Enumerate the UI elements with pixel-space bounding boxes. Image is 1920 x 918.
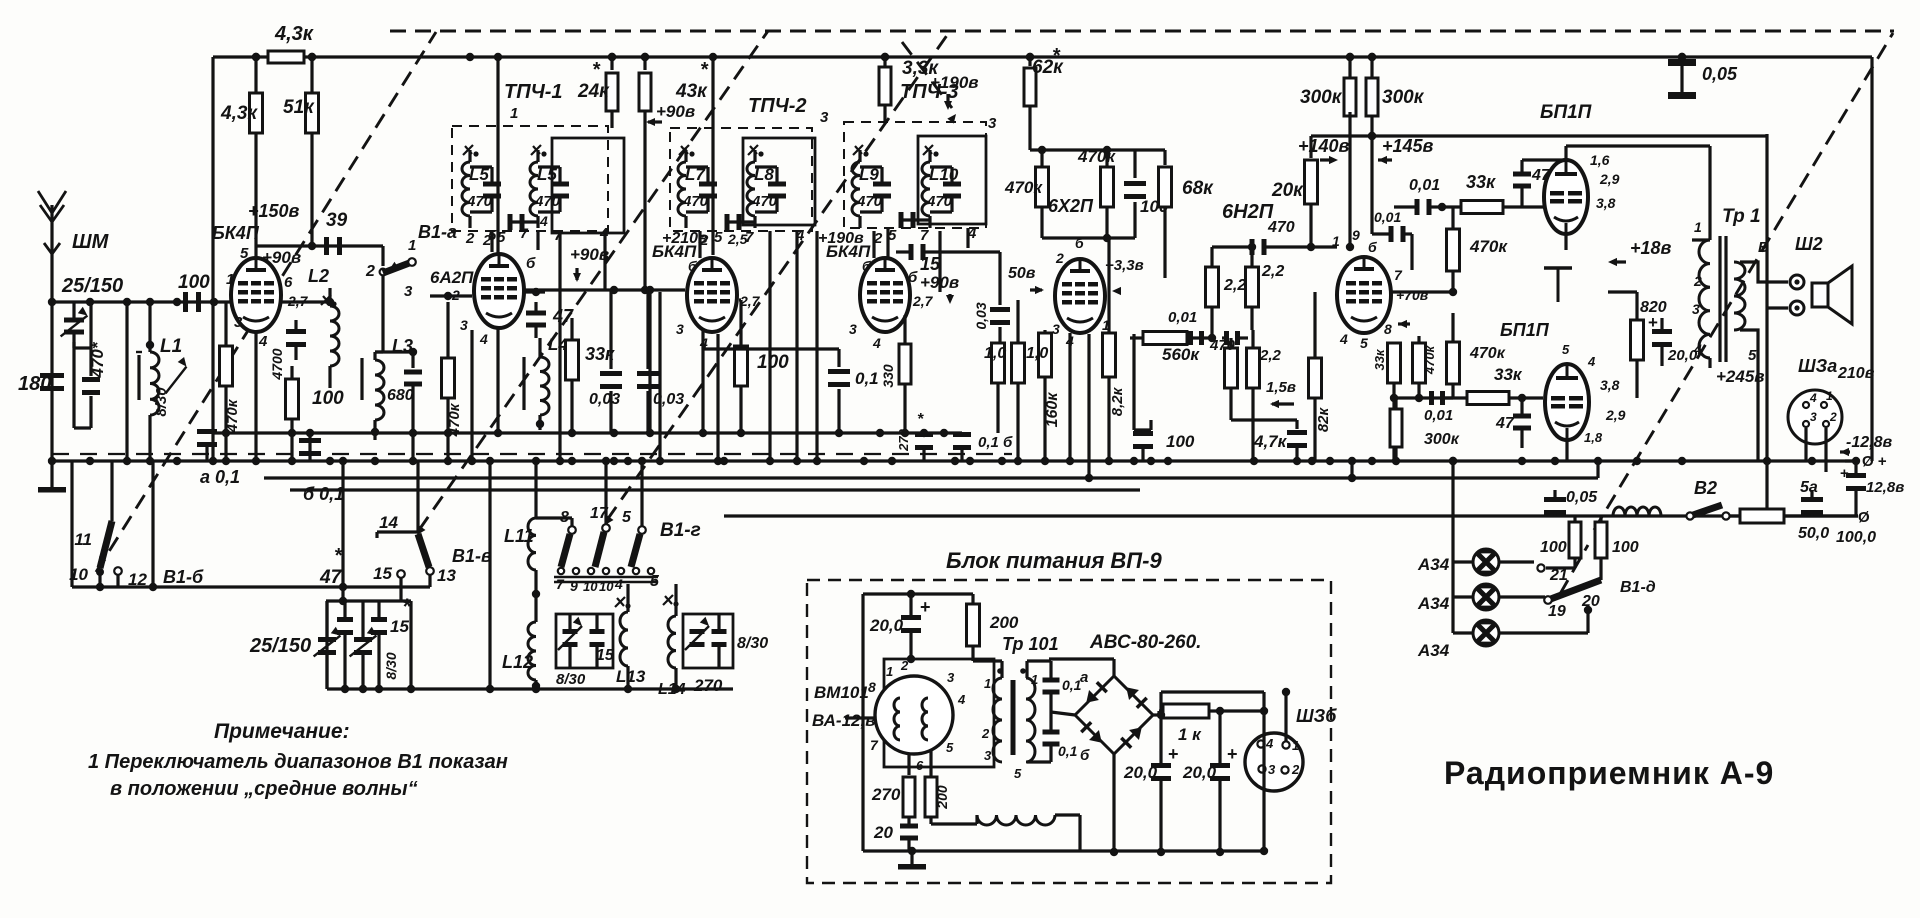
svg-text:470к: 470к (1469, 237, 1508, 256)
label БП1П top (1540, 102, 1592, 123)
svg-text:8/30: 8/30 (383, 652, 399, 679)
xmark L14 (663, 595, 679, 607)
svg-text:ШМ: ШМ (72, 231, 110, 253)
pin labels ТПЧ-2 (699, 227, 805, 249)
transformer Тр1 core (1720, 236, 1726, 362)
svg-text:8: 8 (1384, 321, 1392, 337)
label 100,0 (1836, 509, 1876, 546)
resistor 470к osc (442, 302, 464, 461)
label ШЗа (1798, 356, 1875, 382)
wire psu right (0, 0, 1, 1)
label Ш2 (1795, 234, 1823, 254)
coil L8 (747, 145, 786, 228)
svg-text:4,7к: 4,7к (1253, 432, 1288, 451)
label БК4П V3 (826, 242, 871, 274)
resistor 470к ph (1447, 207, 1509, 292)
svg-text:В1-д: В1-д (1620, 579, 1656, 596)
resistor 820 (1631, 292, 1667, 398)
pins ВМ101 (868, 658, 966, 773)
svg-text:3: 3 (1052, 321, 1060, 337)
svg-text:5: 5 (714, 229, 723, 246)
svg-text:47: 47 (319, 567, 343, 588)
pins 6Н2П (1332, 227, 1403, 351)
wire top supply bus (213, 55, 1872, 58)
tuning gang left (326, 597, 411, 689)
svg-text:4700: 4700 (269, 348, 285, 380)
label Блок питания (946, 548, 1162, 573)
svg-text:ВА-12,в: ВА-12,в (812, 711, 875, 730)
svg-text:4: 4 (1809, 391, 1817, 405)
transformer Тр101 core (997, 668, 1026, 755)
resistor 33к ph (1438, 172, 1545, 214)
svg-text:12,8в: 12,8в (1866, 479, 1904, 496)
pins V7 (1562, 342, 1626, 445)
svg-text:+145в: +145в (1382, 136, 1434, 156)
svg-text:100: 100 (757, 352, 789, 373)
svg-text:1: 1 (1826, 389, 1833, 403)
capacitor 12,8 el (1840, 461, 1904, 516)
svg-text:б 0,1: б 0,1 (303, 484, 344, 504)
trimmer mark L2 (321, 295, 337, 307)
svg-text:3: 3 (1692, 301, 1700, 317)
wire osc row (524, 286, 685, 294)
svg-text:2: 2 (1055, 250, 1064, 266)
svg-text:2: 2 (1829, 410, 1837, 424)
note line 1 (88, 751, 508, 773)
capacitor 470* (74, 302, 107, 428)
capacitor 4,7к (1253, 420, 1307, 461)
wire 6н2п plate a (1346, 112, 1354, 251)
svg-text:100: 100 (312, 388, 344, 409)
pins 6А2П bottom (451, 287, 488, 347)
lamp А34 3 (1453, 620, 1588, 646)
capacitor 100 det2 (1133, 334, 1195, 461)
resistor 300к b (1366, 53, 1425, 136)
capacitor 680 (404, 348, 422, 461)
capacitor 180 (18, 373, 64, 395)
capacitor 5а (1798, 479, 1829, 542)
resistor 200 psu2 (925, 750, 977, 824)
wire B1a down (381, 276, 384, 352)
svg-text:2,9: 2,9 (1599, 171, 1620, 187)
coil Тр1 primary (1699, 240, 1710, 358)
svg-text:5: 5 (240, 245, 249, 262)
bridge АВС-80-260 (1049, 659, 1153, 856)
svg-text:+: + (1840, 465, 1849, 482)
svg-text:9: 9 (1352, 227, 1360, 243)
svg-text:*: * (592, 59, 601, 81)
svg-text:L11: L11 (504, 526, 534, 546)
capacitor 470 series (1212, 239, 1337, 255)
capacitor 270* (896, 411, 933, 461)
svg-text:БП1П: БП1П (1540, 102, 1592, 123)
wire det top (1042, 234, 1135, 242)
label +145в (1378, 136, 1434, 164)
dashed diagonal D2 (417, 31, 768, 535)
svg-text:14: 14 (379, 513, 398, 532)
terminal b (1790, 301, 1804, 315)
svg-text:20: 20 (873, 823, 893, 842)
wire v6 plate к Тр1 (1639, 144, 1710, 147)
svg-text:21: 21 (1549, 567, 1568, 584)
resistor 2,2 c (1247, 330, 1282, 461)
capacitor 0,01 560 (1188, 331, 1204, 345)
wire box верх (1765, 134, 1768, 516)
svg-text:6А2П: 6А2П (430, 268, 474, 287)
coil Тр101 prim (993, 678, 1002, 762)
svg-text:200: 200 (934, 785, 950, 810)
svg-text:2,9: 2,9 (1605, 407, 1626, 423)
label 47* (319, 545, 343, 588)
capacitor 20,0 psu (869, 590, 931, 659)
switch В1-г bank (560, 505, 701, 567)
label 470 cap (1267, 219, 1295, 236)
svg-text:3: 3 (460, 317, 468, 333)
svg-text:1: 1 (984, 676, 991, 691)
svg-text:5: 5 (1360, 335, 1368, 351)
label Тр 1 (1722, 206, 1761, 227)
svg-text:4,3к: 4,3к (274, 23, 314, 45)
shield box L5b (552, 138, 624, 233)
fuse (1730, 509, 1858, 523)
svg-text:2,7: 2,7 (912, 293, 934, 309)
capacitor 15 (896, 244, 1000, 274)
capacitor link ТПЧ-2 (725, 214, 756, 230)
capacitor 0,03 a (589, 290, 622, 433)
svg-text:680: 680 (387, 387, 414, 404)
label ВМ101 (812, 683, 875, 730)
svg-text:3,8: 3,8 (1600, 377, 1620, 393)
label А34 2 (1417, 594, 1450, 613)
svg-text:100,0: 100,0 (1836, 529, 1876, 546)
resistor 470к det a (1004, 150, 1049, 238)
capacitor 4700 (269, 320, 306, 381)
tube БП1П V6 (1544, 160, 1588, 234)
trimmer L1 8/30 (153, 357, 187, 417)
wire drop 479 (468, 124, 471, 127)
dashed diagonal D3 (605, 31, 950, 525)
coil Тр1 secondary (1734, 262, 1745, 330)
wire box left (72, 461, 153, 587)
wire left drop (125, 302, 128, 461)
svg-text:560к: 560к (1162, 345, 1200, 364)
resistor 470 к (1209, 337, 1297, 420)
capacitor 39 (324, 210, 348, 255)
svg-text:Ш2: Ш2 (1795, 234, 1823, 254)
svg-text:3: 3 (984, 748, 992, 763)
svg-text:0,03: 0,03 (973, 302, 989, 329)
capacitor 0,1 psu2 (1027, 730, 1090, 765)
svg-text:0,03: 0,03 (589, 391, 620, 408)
svg-text:В2: В2 (1694, 478, 1717, 498)
capacitor 0,01 низ (1424, 391, 1453, 424)
wire ТПЧ-1 left up (494, 53, 502, 255)
resistor 51к (283, 53, 319, 246)
resistor 4,3к vertical (220, 93, 263, 133)
wire V2 out (703, 300, 741, 461)
svg-text:+90в: +90в (656, 102, 695, 121)
variable capacitor 25/150 b (249, 601, 340, 689)
svg-text:9: 9 (570, 578, 578, 594)
dashed tuning link top (390, 30, 1894, 33)
svg-text:Ø +: Ø + (1862, 453, 1887, 470)
wire drop x213 (211, 57, 214, 461)
svg-text:1: 1 (886, 664, 893, 679)
svg-text:4: 4 (258, 333, 268, 350)
label * (402, 594, 412, 619)
svg-text:6Х2П: 6Х2П (1048, 196, 1094, 216)
capacitor 0,1 V2 (828, 349, 879, 433)
svg-text:-12,8в: -12,8в (1846, 434, 1892, 451)
svg-text:470: 470 (534, 193, 561, 210)
svg-text:б: б (908, 269, 918, 286)
svg-text:50в: 50в (1008, 265, 1036, 282)
antenna (38, 191, 66, 461)
svg-text:3: 3 (234, 314, 243, 331)
svg-text:4,3к: 4,3к (220, 103, 258, 124)
resistor 560к (1130, 309, 1212, 364)
svg-text:Радиоприемник А-9: Радиоприемник А-9 (1444, 755, 1774, 791)
capacitor to gnd x310 (299, 433, 321, 461)
contacts row (556, 568, 660, 594)
svg-text:6Н2П: 6Н2П (1222, 201, 1274, 223)
capacitor 0,03 b (637, 290, 684, 433)
capacitor 20,0 b2 (1182, 707, 1238, 856)
coil L13 (616, 612, 646, 689)
tube БК4П V1 (231, 258, 281, 332)
svg-text:+: + (1227, 744, 1238, 764)
svg-text:2: 2 (365, 263, 375, 280)
wire vert 417 (0, 0, 1, 1)
pin 2,7 V3 (912, 293, 934, 309)
svg-text:1 Переключатель диапазонов: 1 Переключатель диапазонов В1 показан (88, 751, 508, 773)
svg-text:1: 1 (1332, 233, 1340, 249)
title Радиоприемник А-9 (1444, 755, 1774, 791)
capacitor 270 L14 (693, 614, 727, 695)
ferrite L4 (522, 357, 525, 410)
label ТПЧ-2 (748, 95, 829, 126)
wire 6x2 grid link (1070, 333, 1089, 478)
svg-text:3: 3 (1810, 410, 1817, 424)
label +90в arrow (646, 102, 695, 126)
capacitor 0,01 к 470 (1222, 331, 1248, 345)
resistor 100 V1 (286, 366, 345, 461)
svg-text:7: 7 (556, 576, 565, 592)
capacitor 0,05 top (1668, 53, 1738, 99)
svg-text:33к: 33к (1372, 348, 1387, 370)
label +245в (1710, 330, 1765, 386)
svg-text:L12: L12 (502, 652, 533, 672)
pin 4 (256, 333, 268, 461)
label ТПЧ-1 (504, 81, 563, 122)
wire V6 top (1522, 146, 1639, 160)
svg-text:б: б (1080, 747, 1090, 764)
capacitor 0,1 det (0, 0, 1, 1)
wire вб bottom (409, 601, 412, 689)
tube 6Х2П (1055, 259, 1105, 333)
svg-text:5а: 5а (1800, 479, 1818, 496)
svg-text:7: 7 (1394, 267, 1403, 283)
capacitor link ТПЧ-3 (899, 212, 930, 228)
resistor 330 (880, 315, 911, 433)
resistor 100 d1 (1540, 516, 1581, 568)
capacitor 15 L12 (590, 614, 615, 668)
svg-text:1,8: 1,8 (1584, 430, 1603, 445)
dashed diagonal D1 (96, 32, 436, 572)
wire osc top (375, 350, 413, 353)
wire lamps drop (1449, 457, 1457, 633)
wire AGC bus (213, 429, 944, 437)
svg-text:0,01: 0,01 (1374, 209, 1401, 225)
label +90в osc (570, 245, 609, 282)
wire +140 bus (1311, 132, 1767, 140)
svg-text:2,2: 2,2 (1223, 277, 1246, 294)
wire 560 node (1208, 334, 1216, 342)
node a 0,1 (200, 467, 240, 487)
label 6Х2П (1048, 196, 1094, 216)
svg-text:300к: 300к (1382, 87, 1425, 108)
tube БП1П V7 (1545, 364, 1589, 440)
capacitor 100 det (1124, 150, 1169, 238)
resistor 1,0 a (940, 343, 1007, 437)
node b 0,1 (303, 484, 344, 504)
capacitor to gnd x213 (197, 429, 217, 461)
wire tpch2 bottom taps (700, 231, 817, 461)
svg-text:100: 100 (1540, 539, 1567, 556)
coil L4 (536, 335, 569, 430)
terminal - (0, 0, 1, 1)
capacitor 0,1 б (944, 432, 1013, 461)
wire Тр1 prim top (1692, 219, 1710, 240)
svg-text:20,0: 20,0 (1182, 763, 1217, 782)
wire vert из bus (488, 461, 491, 689)
svg-text:68к: 68к (1182, 178, 1214, 199)
svg-text:8,2к: 8,2к (1109, 386, 1126, 416)
terminal + (1845, 453, 1887, 470)
trimmer capacitor 25/150 (61, 302, 90, 348)
pin 2,7 V2 (739, 293, 761, 309)
resistor second (639, 53, 651, 290)
wire 62к row (1030, 146, 1111, 154)
wire psu bottom (863, 849, 1264, 852)
wire x330 drop (339, 461, 347, 601)
capacitor 0,01 ph (1394, 177, 1442, 215)
svg-text:15: 15 (920, 254, 941, 274)
capacitor 20,0 b1 (1123, 711, 1179, 856)
wire ground bus (48, 454, 1858, 461)
label 43к* (675, 59, 709, 102)
coil L11 (504, 518, 540, 600)
svg-text:1,5в: 1,5в (1266, 379, 1296, 396)
svg-text:+: + (920, 597, 931, 617)
capacitor 47 osc (524, 288, 574, 338)
resistor 300к низ (1390, 398, 1460, 461)
svg-text:4: 4 (957, 692, 966, 707)
label +3,3в (1105, 257, 1144, 295)
resistor 33к cath (1372, 342, 1401, 398)
svg-text:470: 470 (751, 193, 778, 210)
dashed tuning link top right (0, 0, 1, 1)
svg-text:2,2: 2,2 (1259, 347, 1282, 364)
svg-text:L9: L9 (859, 165, 879, 184)
svg-text:ШЗа: ШЗа (1798, 356, 1837, 376)
label 6Н2П (1222, 201, 1274, 223)
svg-text:13: 13 (437, 566, 456, 585)
svg-text:Примечание:: Примечание: (214, 720, 350, 743)
wire 6н2п к resistors (1335, 290, 1338, 293)
svg-text:470: 470 (682, 193, 709, 210)
svg-text:180: 180 (18, 373, 51, 395)
cathode tie (1544, 234, 1572, 461)
svg-text:4: 4 (614, 576, 623, 592)
svg-text:1,6: 1,6 (1590, 152, 1610, 168)
svg-text:2,5: 2,5 (727, 231, 748, 247)
coil L1 (146, 302, 182, 461)
wire v1 cathode (281, 298, 334, 306)
resistor 1,0 b (1012, 300, 1049, 461)
wire bus b (290, 488, 1140, 491)
capacitor link ТПЧ-1 (508, 214, 539, 230)
lamp А34 2 (1453, 584, 1545, 610)
pin labels ТПЧ-3 (873, 225, 977, 247)
capacitor 15 t1 (337, 601, 353, 689)
resistor 62к (1024, 45, 1064, 150)
ground psu (898, 847, 926, 870)
svg-text:б: б (526, 255, 536, 272)
wire bus c (724, 514, 1858, 517)
svg-text:Тр 1: Тр 1 (1722, 206, 1761, 227)
wire г drops (536, 461, 676, 616)
pin 3 (234, 314, 243, 331)
svg-text:100: 100 (178, 272, 210, 293)
capacitor 0,03 V3 (973, 252, 1010, 343)
svg-text:L5: L5 (469, 165, 489, 184)
wire 20,0 b1 bottom (1260, 692, 1268, 855)
wire grid V1 (210, 298, 231, 306)
svg-text:4: 4 (1693, 341, 1702, 357)
label АВС-80-260 (1089, 632, 1201, 653)
label ШМ (72, 231, 110, 253)
svg-text:В1-б: В1-б (163, 567, 204, 587)
pins V6 (1590, 152, 1620, 211)
label БП1П bottom (1500, 320, 1550, 340)
svg-text:1,0: 1,0 (1026, 345, 1048, 362)
svg-text:5: 5 (946, 740, 954, 755)
lamp А34 1 (1453, 549, 1534, 575)
svg-text:L13: L13 (616, 667, 646, 686)
svg-text:1: 1 (226, 271, 234, 288)
wire plate drop (252, 53, 260, 259)
svg-text:470к: 470к (1469, 345, 1506, 362)
svg-text:20,0: 20,0 (869, 616, 904, 635)
shield box L8 (743, 138, 815, 225)
svg-text:2: 2 (1693, 273, 1702, 289)
svg-text:2: 2 (1291, 762, 1300, 777)
wire V2 к ТПЧ-3 (703, 347, 839, 350)
wire tpch1 bottom taps (492, 231, 605, 461)
svg-text:0,01: 0,01 (1424, 407, 1453, 424)
ferrite L3 (360, 358, 363, 400)
wire v1 к B1a (381, 246, 384, 266)
wire sec bottom (1748, 344, 1758, 461)
resistor 1к (1153, 692, 1268, 744)
svg-text:+150в: +150в (248, 201, 300, 221)
svg-text:3: 3 (988, 115, 997, 132)
svg-text:7: 7 (920, 227, 929, 244)
note head (214, 720, 350, 743)
capacitor 100 input (178, 272, 210, 312)
wire dots ground bus (48, 457, 1860, 465)
